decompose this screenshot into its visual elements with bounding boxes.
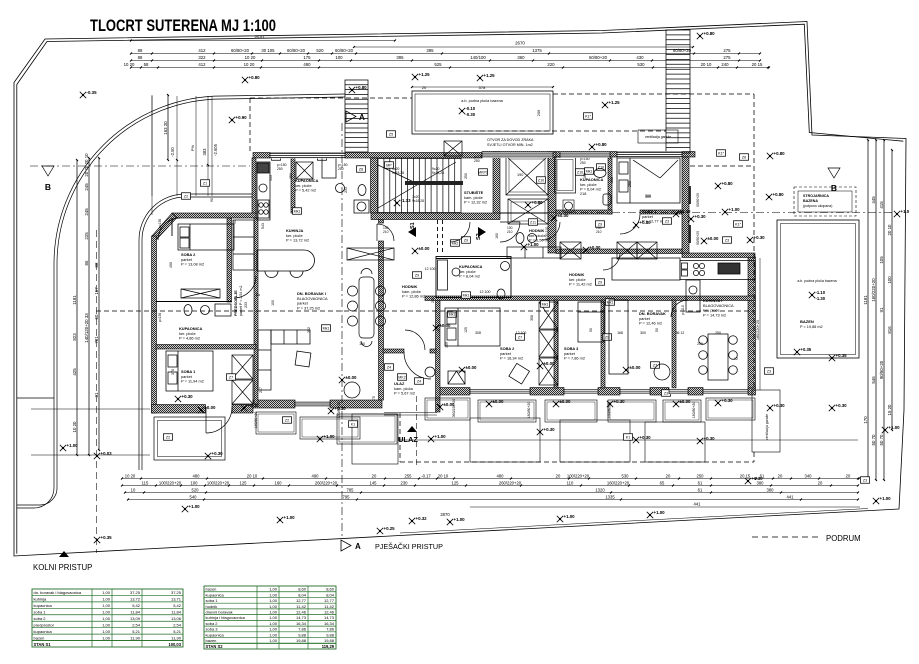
label box Z9 <box>413 272 422 279</box>
svg-text:220: 220 <box>547 62 555 67</box>
svg-text:206: 206 <box>536 109 541 116</box>
svg-text:+1.00: +1.00 <box>880 496 892 501</box>
svg-text:ventilacija garaže: ventilacija garaže <box>645 135 671 139</box>
spot elevation +0.80 <box>525 202 531 208</box>
garage ramp hatch right <box>666 30 690 153</box>
svg-text:+0.90: +0.90 <box>236 115 248 120</box>
svg-text:110: 110 <box>567 480 574 485</box>
svg-text:P%: P% <box>191 144 195 151</box>
svg-text:Z10: Z10 <box>538 178 544 182</box>
svg-text:8,04: 8,04 <box>298 592 307 597</box>
spot elevation ±0.00 <box>583 247 589 253</box>
svg-text:S2: S2 <box>476 233 482 240</box>
label box Mk1 <box>585 168 594 175</box>
svg-text:300: 300 <box>645 195 651 199</box>
label box Z3 <box>723 237 732 244</box>
svg-text:250: 250 <box>697 473 705 478</box>
svg-text:250: 250 <box>697 342 703 346</box>
svg-text:P = 6,04 m2: P = 6,04 m2 <box>580 187 601 192</box>
spot elevation +0.30 <box>715 400 721 406</box>
dimension chain vertical <box>167 95 169 160</box>
svg-text:12 100: 12 100 <box>480 290 491 294</box>
door arc soba1 S2 <box>620 214 640 234</box>
svg-text:100/220+20: 100/220+20 <box>207 480 230 485</box>
svg-text:10 20: 10 20 <box>124 62 135 67</box>
svg-text:1320: 1320 <box>595 487 605 492</box>
spot elevation +1.25 <box>412 74 418 80</box>
wardrobe soba3 c <box>539 358 558 385</box>
spot elevation +0.30 <box>205 453 211 459</box>
wall bottom living b <box>330 400 382 408</box>
spot elevation ±0.00 <box>673 401 679 407</box>
svg-text:412: 412 <box>198 62 206 67</box>
label box Z4 <box>415 378 424 385</box>
spot elevation +0.80 <box>767 153 773 159</box>
svg-text:20 15: 20 15 <box>752 62 763 67</box>
spot elevation +0.30 <box>537 429 543 435</box>
svg-text:hodnik: hodnik <box>206 604 218 609</box>
svg-text:+0.80: +0.80 <box>704 31 716 36</box>
spot elevation +0.30 <box>697 438 703 444</box>
svg-text:bazen: bazen <box>206 638 217 643</box>
svg-text:2870: 2870 <box>440 512 450 517</box>
spot elevation +0.32 <box>409 518 415 524</box>
svg-text:+0.35: +0.35 <box>801 347 812 352</box>
svg-text:soba 2: soba 2 <box>34 616 47 621</box>
svg-text:P = 8,04 m2: P = 8,04 m2 <box>459 274 480 279</box>
svg-text:240: 240 <box>721 62 729 67</box>
svg-text:50 70: 50 70 <box>871 434 876 446</box>
dimension chain vertical <box>76 160 78 455</box>
closet soba1 b <box>232 355 253 379</box>
svg-text:Mk1: Mk1 <box>607 300 614 304</box>
svg-text:60/80+20: 60/80+20 <box>673 48 692 53</box>
svg-text:250: 250 <box>277 167 283 171</box>
svg-text:520: 520 <box>316 48 324 53</box>
spot elevation +1.00 <box>521 244 527 250</box>
label box Mk2 <box>451 240 460 247</box>
svg-text:+1.00: +1.00 <box>729 207 741 212</box>
ramp guide lines <box>151 96 153 196</box>
svg-text:100: 100 <box>191 480 199 485</box>
svg-text:20: 20 <box>818 480 823 485</box>
spot elevation +0.30 <box>175 396 181 402</box>
svg-text:8,60: 8,60 <box>326 587 335 592</box>
svg-text:-0.10: -0.10 <box>466 106 476 111</box>
wall ulaz S2 top a <box>383 349 404 353</box>
sofa table S1 <box>295 351 311 367</box>
svg-text:1,00: 1,00 <box>269 604 278 609</box>
svg-text:STAN S1: STAN S1 <box>34 642 52 647</box>
svg-text:1181: 1181 <box>863 295 868 305</box>
svg-text:P = 11,94 m2: P = 11,94 m2 <box>181 379 204 384</box>
svg-text:12,46: 12,46 <box>324 609 335 614</box>
svg-text:11,90: 11,90 <box>130 635 140 640</box>
label box MK2 <box>398 374 407 381</box>
svg-text:88: 88 <box>138 55 143 60</box>
dimension chain vertical <box>883 140 885 480</box>
svg-text:±0.00: ±0.00 <box>680 209 692 214</box>
svg-text:245: 245 <box>84 183 89 191</box>
wall top left block <box>253 153 482 159</box>
spot elevation +0.30 <box>633 437 639 443</box>
svg-text:Z4: Z4 <box>417 379 421 383</box>
svg-text:1,00: 1,00 <box>269 592 278 597</box>
wall diagonal corner <box>152 213 177 240</box>
closet soba2 <box>181 289 220 298</box>
svg-text:+0.30: +0.30 <box>614 399 626 404</box>
svg-text:dn. boravak i blagovaonica: dn. boravak i blagovaonica <box>34 590 82 595</box>
wall bottom soba1 b <box>232 405 253 414</box>
svg-text:65: 65 <box>660 480 665 485</box>
wall right outer <box>748 257 756 388</box>
svg-text:100: 100 <box>335 55 343 60</box>
table STAN S1 <box>32 589 183 647</box>
svg-text:190: 190 <box>517 173 523 177</box>
garage ramp hatch left <box>345 80 368 152</box>
svg-text:13,71: 13,71 <box>171 597 182 602</box>
label box Z5 <box>387 131 396 138</box>
svg-text:12,77: 12,77 <box>324 598 335 603</box>
spot elevation +1.00 <box>428 436 434 442</box>
svg-text:2670: 2670 <box>515 41 525 46</box>
svg-text:1,00: 1,00 <box>102 597 111 602</box>
svg-text:+1.00: +1.00 <box>889 425 901 430</box>
svg-text:115: 115 <box>142 480 149 485</box>
svg-text:Mk1: Mk1 <box>323 326 330 330</box>
svg-text:1181: 1181 <box>72 295 77 305</box>
svg-text:37,25: 37,25 <box>171 590 182 595</box>
svg-text:19,88: 19,88 <box>296 638 307 643</box>
svg-text:P = 7,86 m2: P = 7,86 m2 <box>564 356 585 361</box>
svg-text:50 70: 50 70 <box>879 434 884 446</box>
svg-text:1335: 1335 <box>605 494 615 499</box>
svg-text:+0.30: +0.30 <box>182 394 194 399</box>
svg-text:+0.30: +0.30 <box>544 427 556 432</box>
label box Z4 <box>385 364 394 371</box>
svg-text:P = 12,46 m2: P = 12,46 m2 <box>639 321 662 326</box>
S2 marker <box>478 227 486 237</box>
svg-text:370: 370 <box>171 369 175 375</box>
wall S1 rooms-living <box>254 218 258 404</box>
spot elevation +0.80 <box>349 87 355 93</box>
label box Z10 <box>576 169 585 176</box>
wall bottom s2 c <box>598 388 620 396</box>
spot elevation +0.03 <box>94 453 100 459</box>
terrace planter row <box>256 412 296 434</box>
svg-text:180/80+20: 180/80+20 <box>337 402 341 419</box>
spot elevation ±0.00 <box>623 367 629 373</box>
svg-text:Z7: Z7 <box>229 375 233 379</box>
label box Z9 <box>596 279 605 286</box>
svg-text:233: 233 <box>244 302 248 308</box>
svg-text:258: 258 <box>610 177 614 183</box>
svg-text:-1.10: -1.10 <box>816 290 826 295</box>
svg-text:540: 540 <box>190 494 198 499</box>
svg-text:+1.25: +1.25 <box>609 100 621 105</box>
svg-text:TLOCRT SUTERENA MJ 1:100: TLOCRT SUTERENA MJ 1:100 <box>90 17 276 35</box>
top dimension chains <box>131 40 395 42</box>
wall soba2-predsoblje <box>227 218 232 302</box>
svg-text:441: 441 <box>787 494 795 499</box>
wall bottom s2 a <box>437 388 470 396</box>
door arcs <box>158 218 688 433</box>
svg-text:60/80+20: 60/80+20 <box>287 48 306 53</box>
wall hodnik S1 left a <box>379 213 384 223</box>
wall step top <box>682 253 755 258</box>
svg-text:9x18,28: 9x18,28 <box>392 171 404 175</box>
svg-text:1,00: 1,00 <box>102 603 111 608</box>
svg-text:11,90: 11,90 <box>171 635 181 640</box>
svg-text:a.b. podna ploča bazena: a.b. podna ploča bazena <box>461 99 503 103</box>
label box Z2 <box>182 193 191 200</box>
svg-text:+1.25: +1.25 <box>419 72 431 77</box>
svg-text:+1.00: +1.00 <box>189 504 201 509</box>
section marker B right <box>828 168 840 178</box>
svg-text:358: 358 <box>530 315 534 321</box>
svg-text:Z8: Z8 <box>359 167 363 171</box>
svg-text:9,88: 9,88 <box>326 632 335 637</box>
svg-text:P = 13,08 m2: P = 13,08 m2 <box>181 262 204 267</box>
svg-text:445: 445 <box>871 196 876 204</box>
svg-text:K1: K1 <box>351 422 355 426</box>
svg-text:Z2: Z2 <box>184 194 188 198</box>
svg-text:-0.17: -0.17 <box>421 473 431 478</box>
section line A-A vertical <box>341 123 343 538</box>
svg-text:OTVOR ZA DOVOD ZRAKA: OTVOR ZA DOVOD ZRAKA <box>487 138 534 142</box>
driveway curb <box>17 398 57 508</box>
svg-text:231: 231 <box>431 297 435 303</box>
svg-text:-0.30: -0.30 <box>466 112 476 117</box>
svg-text:140/100: 140/100 <box>470 55 486 60</box>
spot elevation -0.10 <box>459 108 465 114</box>
svg-text:P = 11,42 m2: P = 11,42 m2 <box>569 282 592 287</box>
wall bottom s2 f <box>748 388 756 396</box>
svg-text:Mk1: Mk1 <box>449 312 456 316</box>
pool top (a.b. podna ploca bazena) <box>412 91 553 134</box>
svg-text:Z2: Z2 <box>166 435 170 439</box>
svg-text:2670: 2670 <box>254 35 264 40</box>
svg-text:140/120+20 33: 140/120+20 33 <box>84 313 89 343</box>
label box K1* <box>717 150 726 157</box>
svg-text:250: 250 <box>580 161 586 165</box>
svg-text:275: 275 <box>723 55 731 60</box>
spot elevation ±0.00 <box>551 215 557 221</box>
ventilacija garaze box top <box>638 130 678 143</box>
window right wall 2 <box>688 225 691 243</box>
wall left outer <box>152 236 157 413</box>
svg-text:170: 170 <box>863 416 868 424</box>
svg-text:360: 360 <box>517 55 525 60</box>
svg-text:±0.00: ±0.00 <box>466 365 478 370</box>
svg-text:+0.03: +0.03 <box>101 451 113 456</box>
svg-text:Z9: Z9 <box>415 273 419 277</box>
strojarnica bazena dashed box <box>794 187 856 216</box>
svg-text:Z9: Z9 <box>464 238 468 242</box>
svg-text:340: 340 <box>805 473 813 478</box>
svg-text:490: 490 <box>312 473 320 478</box>
svg-text:Do: Do <box>256 293 261 297</box>
svg-text:58: 58 <box>144 62 149 67</box>
label box Z7 <box>516 334 525 341</box>
svg-text:parket P = 2,54 m2: parket P = 2,54 m2 <box>239 286 243 316</box>
svg-text:10 20: 10 20 <box>125 473 136 478</box>
spot elevation ±0.00 <box>437 404 443 410</box>
svg-text:+1.00: +1.00 <box>454 517 466 522</box>
svg-text:100,03: 100,03 <box>168 642 181 647</box>
wall stair bottom <box>371 213 500 220</box>
spot elevation +1.25 <box>602 102 608 108</box>
svg-text:400: 400 <box>169 262 173 268</box>
svg-text:250: 250 <box>474 159 480 163</box>
svg-text:490: 490 <box>303 62 311 67</box>
svg-text:soba 1: soba 1 <box>34 609 47 614</box>
sofa S1 <box>258 330 310 390</box>
svg-text:Z9: Z9 <box>605 335 609 339</box>
label box K1* <box>584 113 593 120</box>
svg-text:180/80+20: 180/80+20 <box>527 402 531 419</box>
dashed outline upper floor <box>96 94 754 462</box>
svg-text:Z11: Z11 <box>530 220 536 224</box>
svg-text:20 10: 20 10 <box>701 62 712 67</box>
svg-text:160/220+20: 160/220+20 <box>871 278 876 302</box>
setback dashed line <box>96 230 98 553</box>
svg-text:1,00: 1,00 <box>102 622 111 627</box>
armchair S2b <box>509 363 530 384</box>
svg-text:+0.30: +0.30 <box>248 403 260 408</box>
svg-text:predprostor: predprostor <box>34 622 55 627</box>
svg-text:785: 785 <box>347 487 355 492</box>
spot elevation +1.00 <box>873 498 879 504</box>
svg-text:+1.00: +1.00 <box>564 514 576 519</box>
svg-text:MK2: MK2 <box>398 375 405 379</box>
label box Z3 <box>861 477 870 484</box>
svg-text:12,46: 12,46 <box>296 609 307 614</box>
svg-text:BAZEN: BAZEN <box>800 319 814 324</box>
svg-text:-1.33: -1.33 <box>401 198 412 203</box>
svg-text:7,86: 7,86 <box>326 627 335 632</box>
svg-text:430: 430 <box>636 55 644 60</box>
svg-text:20: 20 <box>372 473 377 478</box>
label box Z2 <box>283 417 292 424</box>
closet b <box>617 242 637 259</box>
svg-text:P = 13,72 m2: P = 13,72 m2 <box>286 238 309 243</box>
svg-text:kuhinja: kuhinja <box>34 597 47 602</box>
svg-text:1,00: 1,00 <box>269 621 278 626</box>
spot elevation +0.90 <box>229 117 235 123</box>
svg-text:90/50+20: 90/50+20 <box>696 231 700 245</box>
spot elevation +0.80 <box>589 144 595 150</box>
label box K1* <box>734 221 743 228</box>
S1 marker <box>408 227 416 237</box>
closet living S1 <box>347 248 394 260</box>
spot elevation +0.80 <box>697 33 703 39</box>
svg-text:1,00: 1,00 <box>269 638 278 643</box>
svg-text:8,60: 8,60 <box>298 587 307 592</box>
ventilacija garaze box right (vertical) <box>752 390 780 452</box>
bathroom S1 lower fixtures <box>184 304 231 316</box>
svg-text:±0.00: ±0.00 <box>493 399 505 404</box>
wall right upper <box>682 157 689 253</box>
label box Z3 <box>318 154 327 161</box>
svg-text:125: 125 <box>240 480 248 485</box>
label box MP <box>385 162 394 169</box>
label box Z3 <box>663 218 672 225</box>
spot elevation +1.00 <box>557 516 563 522</box>
svg-text:168: 168 <box>617 331 623 335</box>
closet a <box>560 242 581 259</box>
section marker B left <box>42 166 54 176</box>
svg-text:A: A <box>355 542 361 551</box>
svg-text:±0.00: ±0.00 <box>680 399 692 404</box>
dining table S2 <box>699 334 738 380</box>
svg-text:+0.30: +0.30 <box>774 403 786 408</box>
svg-text:20 10: 20 10 <box>887 224 892 236</box>
wall kupaonica-soba1 <box>156 345 256 350</box>
svg-text:P = 12,32 m2: P = 12,32 m2 <box>464 200 487 205</box>
svg-text:+1.00: +1.00 <box>67 443 79 448</box>
svg-text:36 12: 36 12 <box>676 331 685 335</box>
svg-text:Z6: Z6 <box>742 155 746 159</box>
svg-text:bazen: bazen <box>34 635 45 640</box>
svg-text:+0.30: +0.30 <box>695 214 707 219</box>
wall soba2-soba3 S2 <box>554 300 558 388</box>
svg-text:13,06: 13,06 <box>171 616 182 621</box>
svg-text:100 210: 100 210 <box>545 227 549 240</box>
svg-text:20 10: 20 10 <box>438 473 449 478</box>
stair landing rail <box>405 181 463 185</box>
svg-text:+0.32: +0.32 <box>416 516 428 521</box>
svg-text:7,86: 7,86 <box>298 627 307 632</box>
svg-text:546: 546 <box>871 376 876 384</box>
svg-text:5,42: 5,42 <box>173 603 182 608</box>
spot elevation +1.00 <box>317 436 323 442</box>
svg-text:Mk1: Mk1 <box>542 302 549 306</box>
shaft 2 <box>508 199 548 224</box>
svg-text:816: 816 <box>887 326 892 334</box>
svg-text:233: 233 <box>344 187 348 193</box>
svg-text:+0.80: +0.80 <box>596 142 608 147</box>
svg-text:100: 100 <box>271 300 275 306</box>
sofa S2 <box>609 300 628 374</box>
svg-text:±0.00: ±0.00 <box>419 246 431 251</box>
svg-text:kuhinja i blagovaonica: kuhinja i blagovaonica <box>206 615 246 620</box>
svg-text:90: 90 <box>233 220 237 224</box>
svg-text:260/220+20: 260/220+20 <box>499 480 522 485</box>
svg-text:Z3: Z3 <box>725 238 729 242</box>
svg-text:+0.30: +0.30 <box>722 398 734 403</box>
bathroom S2 fixtures <box>516 169 611 244</box>
dimension chain vertical <box>875 140 877 480</box>
label box Z7 <box>227 374 236 381</box>
svg-text:160/220+20: 160/220+20 <box>756 320 760 340</box>
svg-text:30 105: 30 105 <box>261 48 275 53</box>
spot elevation -1.10 <box>809 292 815 298</box>
svg-text:SVJETLI OTVOR MIN. 1m2: SVJETLI OTVOR MIN. 1m2 <box>487 143 533 147</box>
site boundary <box>14 22 906 557</box>
svg-text:P = 16,34 m2: P = 16,34 m2 <box>500 356 523 361</box>
svg-text:Z3: Z3 <box>767 369 771 373</box>
svg-text:160/220+20: 160/220+20 <box>607 480 630 485</box>
svg-text:15 20: 15 20 <box>887 404 892 416</box>
svg-text:380: 380 <box>757 480 765 485</box>
svg-text:STAN S2: STAN S2 <box>206 644 224 649</box>
label box Z9 <box>596 221 605 228</box>
wall bottom s2 b <box>530 388 564 396</box>
svg-text:247: 247 <box>259 387 263 393</box>
svg-text:210: 210 <box>383 230 389 234</box>
ulaz S2 bottom edge <box>384 412 437 414</box>
